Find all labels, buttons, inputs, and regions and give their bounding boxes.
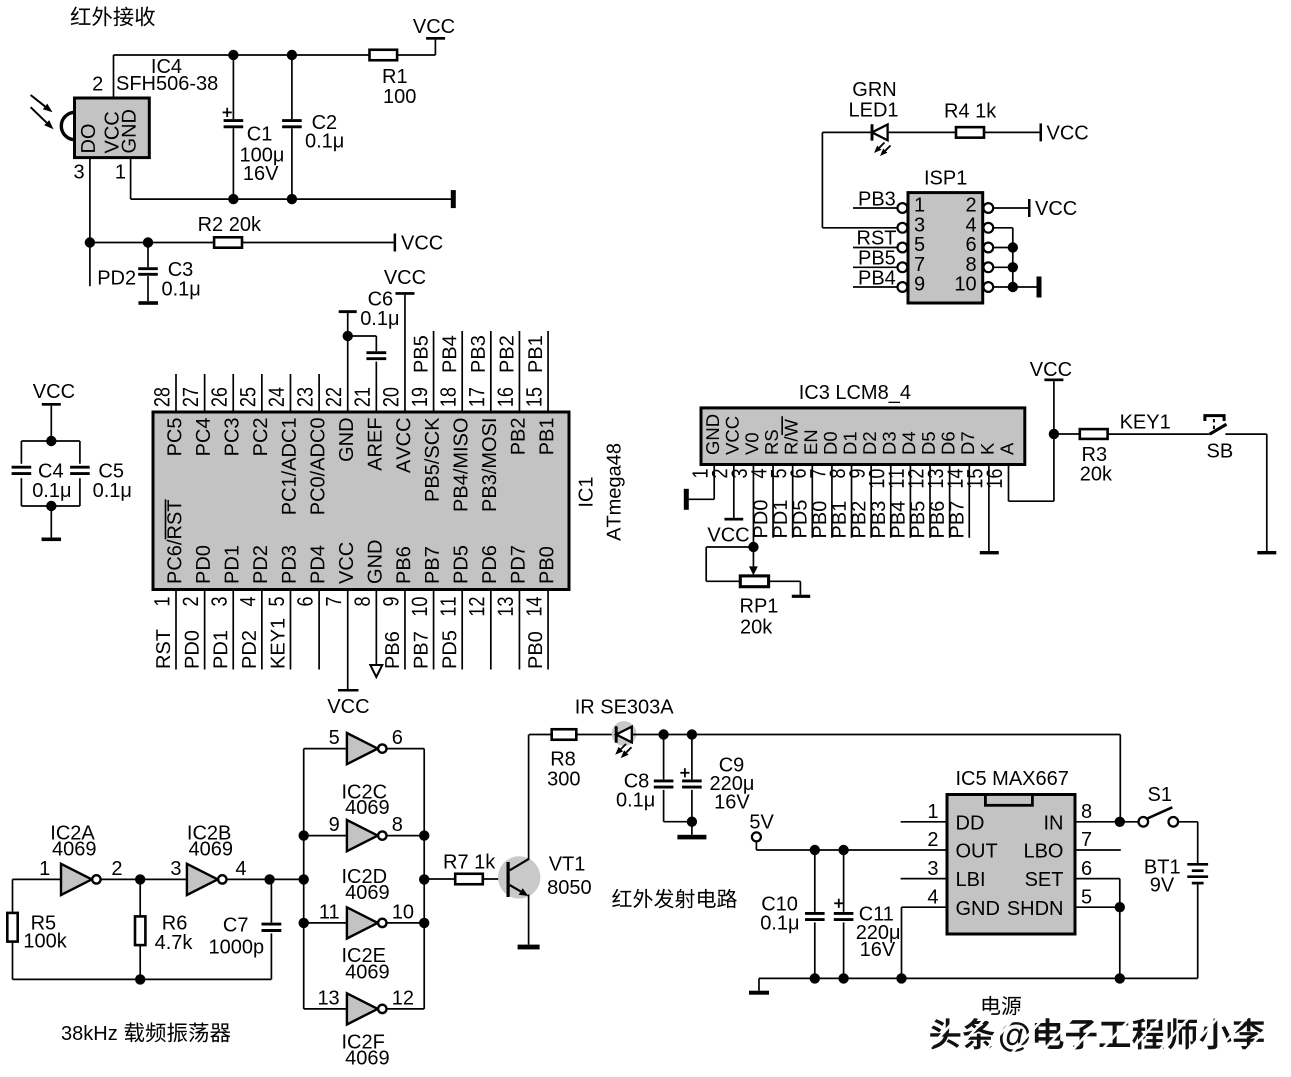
svg-text:R4 1k: R4 1k xyxy=(944,101,997,123)
svg-text:R7 1k: R7 1k xyxy=(443,852,496,874)
svg-text:C1: C1 xyxy=(247,124,273,146)
node SHDN xyxy=(1115,902,1125,912)
LED1 emission arrows xyxy=(879,143,884,148)
pushbutton SB xyxy=(1210,424,1227,434)
svg-text:5: 5 xyxy=(329,727,340,749)
ISP1 right pin circle 4 xyxy=(983,223,993,233)
svg-text:PD2: PD2 xyxy=(97,268,136,290)
IC1 pin 17 (PB3/MOSI) xyxy=(490,331,492,412)
ground below C3 xyxy=(138,301,158,305)
IC3 pin 13 (D6) xyxy=(942,432,955,453)
IC1 pin22 wire to ground bar xyxy=(347,313,349,412)
svg-text:300: 300 xyxy=(547,769,580,791)
svg-text:LED1: LED1 xyxy=(848,100,898,122)
IC1 side label xyxy=(579,477,593,505)
IC5 pin1 stub xyxy=(901,821,947,823)
capacitor C1 xyxy=(232,55,234,119)
svg-text:20k: 20k xyxy=(740,617,773,639)
svg-text:1: 1 xyxy=(927,801,938,823)
resistor R4 xyxy=(956,127,984,137)
svg-text:2: 2 xyxy=(965,195,976,217)
wire R7 to VT1 base xyxy=(483,878,507,880)
svg-text:0.1μ: 0.1μ xyxy=(360,308,399,330)
svg-text:5: 5 xyxy=(914,234,925,256)
node C9 top xyxy=(687,729,697,739)
IC3 pin 6 (EN) xyxy=(804,431,817,454)
IC1 pin 8 (GND) xyxy=(375,590,377,666)
svg-text:VT1: VT1 xyxy=(549,854,586,876)
IC1 ATmega48 body xyxy=(153,412,569,590)
svg-text:VCC: VCC xyxy=(401,233,443,255)
svg-text:4069: 4069 xyxy=(345,962,390,984)
svg-text:PB5: PB5 xyxy=(858,248,896,270)
VCC terminal right of R2 xyxy=(394,234,397,252)
node C3 top xyxy=(143,237,153,247)
ground bottom-left rail xyxy=(758,978,760,990)
resistor R5 xyxy=(7,913,17,942)
IC5 top notch xyxy=(985,795,1032,806)
IC1 pin 3 (PD1) xyxy=(232,590,234,670)
svg-text:4: 4 xyxy=(235,858,246,880)
wire LED1 anode to R4 xyxy=(888,131,956,133)
capacitor C7 xyxy=(270,879,272,922)
wire IC4 pin3 DO down xyxy=(89,158,91,243)
IC1 pin 21 (AREF) xyxy=(354,388,369,406)
svg-text:13: 13 xyxy=(317,987,339,1009)
svg-text:VCC: VCC xyxy=(1035,198,1077,220)
ISP1 left pin circle 9 xyxy=(898,282,908,292)
RP1 feedback loop xyxy=(706,546,753,548)
svg-text:10: 10 xyxy=(954,274,976,296)
IC3 pin 12 (D5) xyxy=(922,432,935,453)
svg-text:PB3: PB3 xyxy=(858,189,896,211)
battery BT1 xyxy=(1187,863,1208,866)
wire input IC2D xyxy=(304,835,347,837)
wire DO to R2 xyxy=(90,242,214,244)
ISP1 right pin circle 6 xyxy=(983,243,993,253)
svg-text:20k: 20k xyxy=(1080,464,1113,486)
wire VCC to C4C5 xyxy=(50,406,52,441)
IC3 pin1 to ground xyxy=(713,465,715,500)
svg-text:OUT: OUT xyxy=(956,841,998,863)
wire output IC2F xyxy=(387,1008,425,1010)
svg-text:S1: S1 xyxy=(1148,784,1172,806)
IC1 pin 24 (PC1/ADC1) xyxy=(289,374,291,412)
node ISP pin10 xyxy=(1008,282,1018,292)
inverter IC2C xyxy=(347,733,378,764)
ground below VT1 xyxy=(518,945,540,950)
wire ISP pin6 xyxy=(994,247,1013,249)
IC4 photodetector lens bump xyxy=(61,112,75,139)
section label 电源 xyxy=(983,996,1001,1015)
wire SB to ground xyxy=(1225,433,1266,435)
svg-text:4069: 4069 xyxy=(52,838,97,860)
IC4 pin label DO xyxy=(81,124,95,151)
node input bus main xyxy=(299,874,309,884)
svg-text:IC5 MAX667: IC5 MAX667 xyxy=(956,768,1069,790)
ground below C4C5 xyxy=(50,506,52,538)
IC5 pin5 wire xyxy=(1075,906,1120,908)
wire top rail to S1 column xyxy=(692,734,1120,736)
wire IC4 pin2 up xyxy=(113,55,115,98)
svg-text:5: 5 xyxy=(1081,886,1092,908)
svg-text:GRN: GRN xyxy=(852,79,896,101)
svg-text:KEY1: KEY1 xyxy=(1120,412,1171,434)
inverter IC2F xyxy=(347,993,378,1024)
node A/R3/VCC xyxy=(1049,429,1059,439)
svg-text:1: 1 xyxy=(914,195,925,217)
R6 branch xyxy=(139,879,141,916)
IC3 pin 9 (D2) xyxy=(863,432,876,453)
node IN/S1 xyxy=(1115,817,1125,827)
svg-text:6: 6 xyxy=(392,727,403,749)
IC5 MAX667 body xyxy=(947,795,1075,935)
svg-text:0.1μ: 0.1μ xyxy=(162,279,201,301)
node C7 top xyxy=(264,874,274,884)
svg-text:8: 8 xyxy=(1081,801,1092,823)
IC1 pin 7 (VCC) xyxy=(347,590,349,691)
IC1 pin 23 (PC0/ADC0) xyxy=(318,374,320,412)
svg-text:4069: 4069 xyxy=(189,838,234,860)
wire ISP pin2 to VCC xyxy=(994,207,1028,209)
VCC terminal below IC1 pin7 xyxy=(338,689,359,692)
inverter IC2B xyxy=(187,864,218,895)
watermark 头条@电子工程师小李 xyxy=(930,1018,961,1049)
svg-text:VCC: VCC xyxy=(327,696,369,718)
node pin22/C6 xyxy=(343,331,353,341)
node bottom C11 xyxy=(838,973,848,983)
wire VT1 collector to R8 xyxy=(529,734,552,736)
wire output bus to R7 xyxy=(424,878,455,880)
IC1 pin 5 (PD3) xyxy=(289,590,291,670)
ISP1 right pin circle 2 xyxy=(983,203,993,213)
node output bus main xyxy=(419,874,429,884)
svg-text:VCC: VCC xyxy=(1047,123,1089,145)
IC5 pin6 wire xyxy=(1075,878,1120,880)
capacitor C9 xyxy=(691,735,693,780)
inverter IC2D xyxy=(347,820,378,851)
IR LED emission arrows xyxy=(621,744,626,749)
svg-text:38kHz: 38kHz xyxy=(61,1023,118,1045)
node bottom GND pin4 xyxy=(896,973,906,983)
IC1 pin 18 (PB4/MISO) xyxy=(461,331,463,412)
svg-text:SFH506-38: SFH506-38 xyxy=(116,73,218,95)
wire IC2A out to IC2B xyxy=(101,878,187,880)
IC1 pin 19 (PB5/SCK) xyxy=(433,331,435,412)
ground bar ISP xyxy=(1037,277,1042,298)
node C2 bottom xyxy=(287,194,297,204)
IC3 pin 3 (V0) xyxy=(745,433,758,455)
IC1 pin 13 (PD7) xyxy=(518,590,520,670)
svg-text:4069: 4069 xyxy=(345,797,390,819)
wire R1 to VCC xyxy=(397,54,435,56)
IC5 pin8 wire xyxy=(1075,821,1139,823)
svg-text:VCC: VCC xyxy=(33,381,75,403)
IC3 pin 16 (A) xyxy=(1001,443,1014,455)
wire R8 to IR LED xyxy=(576,734,616,736)
capacitor C11 xyxy=(843,850,845,912)
svg-text:9V: 9V xyxy=(1150,875,1175,897)
node C1 bottom xyxy=(228,194,238,204)
node ISP pin8 xyxy=(1008,262,1018,272)
svg-text:0.1μ: 0.1μ xyxy=(616,790,655,812)
ISP1 left pin circle 1 xyxy=(898,203,908,213)
IC3 pin 10 (D3) xyxy=(883,432,896,453)
IC1 pin 6 (PD4) xyxy=(318,590,320,670)
IC3 pin16 wire to VCC node xyxy=(1008,465,1010,502)
section label 红外发射电路 xyxy=(612,889,631,907)
svg-text:6: 6 xyxy=(965,234,976,256)
svg-text:0.1μ: 0.1μ xyxy=(760,913,799,935)
IC5 pin7 stub xyxy=(1075,849,1121,851)
svg-text:5V: 5V xyxy=(749,812,774,834)
svg-text:R2 20k: R2 20k xyxy=(198,214,262,236)
RP1 to ground xyxy=(769,580,801,582)
node input bus IC2E xyxy=(299,918,309,928)
svg-text:16V: 16V xyxy=(714,792,750,814)
inverter input bus xyxy=(303,749,305,1009)
IC1 pin 4 (PD2) xyxy=(261,590,263,670)
node C10 top xyxy=(810,845,820,855)
svg-text:DD: DD xyxy=(956,812,985,834)
svg-text:1: 1 xyxy=(115,162,126,184)
wire 5V to OUT xyxy=(755,841,757,850)
wire PB4 to ISP pin9 xyxy=(853,286,897,288)
svg-text:LBI: LBI xyxy=(956,869,986,891)
node R6 bottom xyxy=(135,974,145,984)
wire ISP pin10 xyxy=(994,286,1013,288)
svg-text:16V: 16V xyxy=(860,939,896,961)
capacitor C10 xyxy=(814,850,816,912)
svg-text:0.1μ: 0.1μ xyxy=(93,480,132,502)
VCC terminal top-left xyxy=(426,37,445,40)
svg-text:GND: GND xyxy=(956,898,1000,920)
svg-text:SHDN: SHDN xyxy=(1007,898,1064,920)
wire ISP pin4 chain xyxy=(994,227,1013,229)
ISP1 right pin circle 10 xyxy=(983,282,993,292)
ground bar right of C2 xyxy=(451,190,456,208)
IC1 pin 25 (PC2) xyxy=(261,374,263,412)
ISP1 right pin circle 8 xyxy=(983,262,993,272)
svg-text:VCC: VCC xyxy=(384,267,426,289)
node R6 top xyxy=(135,874,145,884)
IC1 pin 2 (PD0) xyxy=(204,590,206,670)
wire IC2B out to bus xyxy=(227,878,304,880)
node bottom C10 xyxy=(810,973,820,983)
node PD2 stub xyxy=(89,243,91,287)
potentiometer RP1 xyxy=(740,576,768,587)
svg-text:4069: 4069 xyxy=(345,882,390,904)
IC4 incoming IR arrows xyxy=(31,95,45,106)
IC3 LCD module body xyxy=(701,408,1025,465)
wire PB3 to ISP pin1 xyxy=(853,207,897,209)
IC1 pin 26 (PC3) xyxy=(232,374,234,412)
wire R2 to VCC xyxy=(242,242,394,244)
ISP1 left pin circle 3 xyxy=(898,223,908,233)
ISP1 left pin circle 7 xyxy=(898,262,908,272)
IR LED SE303A xyxy=(612,721,637,746)
svg-text:LBO: LBO xyxy=(1023,841,1063,863)
IC1 pin 10 (PB7) xyxy=(433,590,435,670)
IC1 pin20 wire to VCC xyxy=(404,295,406,412)
wire S1 to battery xyxy=(1178,821,1198,823)
IC1 pin 9 (PB6) xyxy=(404,590,406,670)
svg-text:R8: R8 xyxy=(550,749,576,771)
node C1 top xyxy=(228,50,238,60)
resistor R1 xyxy=(370,50,398,61)
svg-text:11: 11 xyxy=(319,901,340,923)
IC3 pin 5 (R/W) xyxy=(784,419,798,453)
svg-text:6: 6 xyxy=(1081,858,1092,880)
IC3 pin3 V0 wire xyxy=(752,465,754,548)
svg-text:4: 4 xyxy=(965,215,976,237)
VCC terminal ISP pin2 xyxy=(1028,199,1031,217)
node C4C5 top xyxy=(46,436,56,446)
svg-text:SB: SB xyxy=(1207,441,1234,463)
svg-text:100: 100 xyxy=(383,86,416,108)
svg-text:1000p: 1000p xyxy=(209,937,265,959)
section label 红外接收 xyxy=(71,7,91,26)
capacitor C6 xyxy=(348,335,377,337)
svg-text:IR SE303A: IR SE303A xyxy=(575,697,675,719)
IC4 pin label GND xyxy=(122,110,136,152)
svg-text:0.1μ: 0.1μ xyxy=(305,131,344,153)
IC1 pin 11 (PD5) xyxy=(461,590,463,670)
IC1 pin 28 (PC5) xyxy=(175,374,177,412)
node output bus IC2D xyxy=(419,830,429,840)
wire output IC2D xyxy=(387,835,425,837)
resistor R7 xyxy=(455,874,483,885)
inverter IC2E xyxy=(347,907,378,938)
node C11 top xyxy=(838,845,848,855)
IC3 pin 8 (D1) xyxy=(844,432,857,453)
wire input IC2F xyxy=(304,1008,347,1010)
svg-text:IN: IN xyxy=(1044,812,1064,834)
IC5 pin4 wire xyxy=(902,906,948,908)
IR receiver module IC4 body xyxy=(75,98,150,158)
IC4 pin label VCC xyxy=(105,112,119,153)
node ISP pin6 xyxy=(1008,242,1018,252)
svg-text:4069: 4069 xyxy=(345,1048,390,1070)
resistor R8 xyxy=(552,729,577,740)
wire VCC rail top xyxy=(114,54,370,56)
svg-text:4.7k: 4.7k xyxy=(155,932,194,954)
C4/C5 loop wires xyxy=(21,440,80,442)
svg-text:8: 8 xyxy=(965,254,976,276)
IC5 pin3 stub xyxy=(901,878,947,880)
wire IR LED to C8 xyxy=(632,734,692,736)
resistor R2 xyxy=(214,237,242,247)
power bottom rail xyxy=(759,977,1198,979)
resistor R6 xyxy=(135,916,145,945)
wire RST to ISP pin5 xyxy=(853,247,897,249)
IC1 pin 15 (PB1) xyxy=(547,331,549,412)
resistor R3 xyxy=(1080,429,1108,439)
svg-text:12: 12 xyxy=(392,987,414,1009)
svg-text:VCC: VCC xyxy=(1030,359,1072,381)
ground below C9 xyxy=(677,835,706,840)
svg-text:3: 3 xyxy=(927,858,938,880)
svg-text:9: 9 xyxy=(329,814,340,836)
node output bus IC2E xyxy=(419,918,429,928)
IC1 pin 12 (PD6) xyxy=(490,590,492,670)
svg-text:ISP1: ISP1 xyxy=(924,168,967,190)
node DO junction xyxy=(85,237,95,247)
svg-text:IC3 LCM8_4: IC3 LCM8_4 xyxy=(799,382,911,404)
svg-text:1: 1 xyxy=(39,858,50,880)
switch S1 xyxy=(1139,817,1149,827)
inverter output bus xyxy=(423,749,425,1009)
node C8 top xyxy=(658,729,668,739)
IC3 pin 1 (GND) xyxy=(706,415,719,454)
node C2 top xyxy=(287,50,297,60)
svg-text:R1: R1 xyxy=(382,66,408,88)
IC1 pin 1 (PC6/RST) xyxy=(175,590,177,670)
svg-text:VCC: VCC xyxy=(413,16,455,38)
svg-text:16V: 16V xyxy=(243,163,279,185)
inverter IC2A xyxy=(61,864,92,895)
ISP1 left pin circle 5 xyxy=(898,243,908,253)
wire input IC2E xyxy=(304,922,347,924)
node bottom SHDN xyxy=(1115,973,1125,983)
IC3 pin 14 (D7) xyxy=(961,432,974,453)
IC1 pin 14 (PB0) xyxy=(547,590,549,670)
IC3 pin15 to ground xyxy=(988,465,990,552)
wire PB5 to ISP pin7 xyxy=(853,266,897,268)
wire LED1 cathode loop to ISP pin3 xyxy=(822,131,872,133)
wire ISP pin8 xyxy=(994,266,1013,268)
wire R4 to VCC xyxy=(984,131,1040,133)
IC3 pin 4 (RS) xyxy=(765,430,778,453)
transistor VT1 xyxy=(498,856,540,898)
wire R3 to SB xyxy=(1108,433,1210,435)
IC1 pin 20 (AVCC) xyxy=(383,388,399,406)
IC1 pin 16 (PB2) xyxy=(518,331,520,412)
svg-text:100k: 100k xyxy=(23,931,67,953)
wire IC4 pin1 gnd rail xyxy=(130,158,132,200)
svg-text:SET: SET xyxy=(1025,869,1064,891)
wire output IC2E xyxy=(387,922,425,924)
R5 to bottom rail xyxy=(12,942,14,980)
svg-text:3: 3 xyxy=(170,858,181,880)
svg-text:RST: RST xyxy=(857,228,897,250)
svg-text:0.1μ: 0.1μ xyxy=(32,480,71,502)
svg-text:2: 2 xyxy=(927,829,938,851)
svg-text:9: 9 xyxy=(914,274,925,296)
capacitor C2 xyxy=(291,55,293,119)
wire ISP gnd xyxy=(1013,286,1037,288)
IC3 pin 11 (D4) xyxy=(902,432,915,454)
IC3 pin2 to VCC xyxy=(733,465,735,518)
node V0 xyxy=(748,542,758,552)
svg-text:8: 8 xyxy=(392,814,403,836)
IC3 pin 15 (K) xyxy=(981,443,994,454)
capacitor C3 xyxy=(147,243,149,268)
wire input IC2C xyxy=(304,748,347,750)
capacitor C8 xyxy=(663,735,665,780)
IC3 pin 7 (D0) xyxy=(824,432,837,453)
node C4C5 bottom xyxy=(46,501,56,511)
svg-text:10: 10 xyxy=(392,901,414,923)
svg-text:PB4: PB4 xyxy=(858,268,896,290)
svg-text:2: 2 xyxy=(92,74,103,96)
svg-text:8050: 8050 xyxy=(547,877,592,899)
capacitor C5 xyxy=(70,464,90,478)
svg-text:7: 7 xyxy=(1081,829,1092,851)
svg-text:7: 7 xyxy=(914,254,925,276)
IC1 pin 27 (PC4) xyxy=(204,374,206,412)
ISP1 header body xyxy=(908,193,983,303)
